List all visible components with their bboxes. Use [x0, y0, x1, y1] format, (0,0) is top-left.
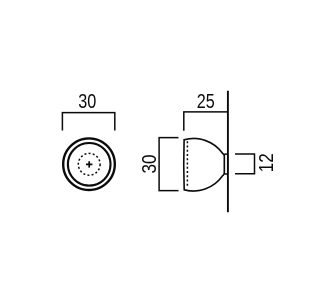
front view dashed bolt circle [78, 153, 100, 175]
knob neck [224, 154, 228, 174]
dimension bracket 30 (knob height, left) [159, 138, 178, 191]
svg-text:25: 25 [197, 91, 215, 113]
front view outer circle [63, 138, 115, 190]
dimension bracket 12 (neck height, right) [235, 154, 255, 174]
wall mounting line [227, 91, 229, 213]
front view inner circle [68, 143, 111, 186]
knob face dotted line [186, 141, 188, 187]
svg-text:30: 30 [78, 91, 96, 113]
knob body outline (side view) [184, 139, 225, 191]
svg-text:12: 12 [256, 153, 278, 172]
dimension bracket 25 (side view width) [184, 112, 228, 131]
svg-text:30: 30 [139, 155, 161, 174]
dimension bracket 30 (front view width) [62, 113, 114, 131]
center cross mark [86, 161, 92, 167]
